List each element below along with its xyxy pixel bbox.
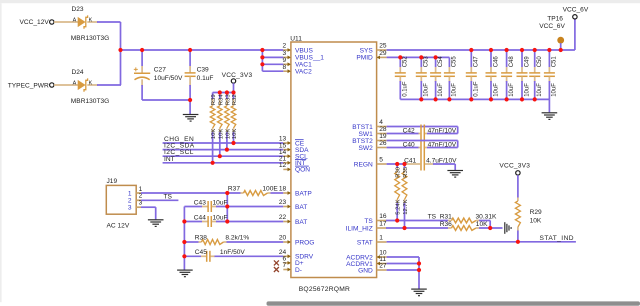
svg-text:VBUS: VBUS — [295, 47, 314, 54]
svg-text:PMID: PMID — [356, 55, 373, 62]
pin 23 BAT — [279, 199, 307, 211]
svg-text:STAT_IND: STAT_IND — [540, 235, 575, 242]
svg-text:R33: R33 — [225, 94, 231, 106]
svg-text:C53: C53 — [424, 56, 430, 68]
pin 20 PROG — [279, 235, 315, 247]
port VCC_12V — [19, 19, 54, 26]
resistor R34 10K pull-up — [218, 93, 225, 157]
pin 12 QON — [279, 162, 310, 174]
svg-text:10uF: 10uF — [552, 83, 558, 97]
wire C27 bottom to ground bus — [142, 99, 190, 101]
capacitor C55 10uF — [444, 56, 458, 100]
pin 7 D- — [283, 262, 302, 274]
node R31/R36 join — [488, 226, 492, 230]
svg-text:R39: R39 — [211, 94, 217, 105]
svg-text:C55: C55 — [452, 56, 458, 68]
node STAT R29 — [516, 240, 520, 244]
svg-text:PROG: PROG — [295, 239, 314, 246]
svg-text:10uF: 10uF — [438, 83, 444, 97]
pin 5 REGN — [354, 157, 387, 169]
svg-text:10K: 10K — [232, 129, 238, 140]
capacitor C50 10uF — [529, 50, 543, 99]
wire ACDRV vertical — [418, 257, 420, 289]
ground under cap bank — [542, 99, 558, 119]
svg-text:BATP: BATP — [295, 190, 312, 197]
connector J19 — [106, 178, 142, 230]
node R33 bottom — [225, 148, 229, 152]
op-amp U11 BQ25672RQMR body — [290, 35, 376, 293]
capacitor C39 — [185, 50, 214, 100]
svg-text:C43: C43 — [194, 199, 206, 206]
svg-text:25: 25 — [379, 43, 387, 50]
capacitor C42 47nF/10V — [387, 125, 458, 171]
node C39 top — [188, 48, 192, 52]
node R32 top — [231, 90, 235, 94]
svg-text:BAT: BAT — [295, 204, 307, 211]
capacitor C54 10uF — [430, 56, 444, 100]
svg-text:C47: C47 — [474, 56, 480, 68]
svg-text:C52: C52 — [403, 56, 409, 68]
svg-text:28: 28 — [379, 126, 387, 133]
svg-text:R31: R31 — [440, 213, 452, 220]
node TP16 stub — [559, 48, 563, 52]
svg-text:K: K — [89, 80, 93, 86]
resistor R36 10K — [386, 221, 503, 230]
svg-text:VCC_3V3: VCC_3V3 — [499, 163, 530, 170]
svg-text:R34: R34 — [218, 94, 224, 106]
resistor R35 12.7K — [402, 164, 409, 228]
pin 19 BTST2 — [352, 133, 387, 145]
svg-text:C40: C40 — [403, 141, 415, 148]
svg-text:D23: D23 — [72, 6, 84, 13]
capacitor C47 0.1uF — [466, 50, 480, 99]
svg-text:10uF: 10uF — [213, 214, 228, 221]
node ACDRV1 — [417, 261, 421, 265]
resistor R31 30.31K — [386, 213, 497, 228]
svg-text:VAC2: VAC2 — [295, 69, 312, 76]
svg-text:SW2: SW2 — [359, 145, 374, 152]
svg-text:19: 19 — [379, 133, 387, 140]
svg-text:10K: 10K — [476, 221, 488, 228]
svg-text:12.7K: 12.7K — [403, 199, 409, 214]
pin 8 VAC2 — [283, 64, 313, 76]
node REGN R35 — [402, 162, 406, 166]
svg-text:0.1uF: 0.1uF — [197, 75, 214, 82]
svg-text:SW1: SW1 — [359, 131, 374, 138]
resistor R37 100E — [141, 186, 283, 196]
svg-text:C54: C54 — [438, 56, 444, 68]
test point TP16 — [539, 15, 565, 50]
node C44 left — [182, 219, 186, 223]
svg-text:4.7uF/10V: 4.7uF/10V — [426, 158, 457, 165]
pin 26 SW2 — [359, 140, 387, 152]
wire ACDRV1 — [387, 263, 419, 265]
node SYS cap junctions — [469, 48, 473, 52]
svg-text:10uF: 10uF — [452, 83, 458, 97]
capacitor C53 10uF — [416, 56, 430, 100]
node ILIM R35 junction — [402, 226, 406, 230]
svg-text:17: 17 — [379, 221, 387, 228]
svg-text:23: 23 — [279, 199, 287, 206]
pin 14 SCL — [279, 149, 308, 161]
diode D23 — [54, 6, 109, 42]
svg-text:QON: QON — [295, 167, 310, 174]
node R32 bottom — [231, 141, 235, 145]
svg-text:AC 12V: AC 12V — [107, 222, 130, 229]
wire pull-up top bus — [213, 92, 234, 94]
capacitor C43 10uF — [184, 199, 283, 212]
svg-text:C46: C46 — [493, 56, 499, 68]
svg-text:22: 22 — [279, 214, 287, 221]
wire J19 pin3 to ground — [141, 207, 156, 219]
svg-text:C39: C39 — [197, 66, 209, 73]
svg-text:C48: C48 — [509, 56, 515, 68]
node R37 / BAT vertical — [225, 191, 229, 195]
pin 10 ACDRV2 — [346, 250, 387, 262]
node PMID cap junctions — [398, 55, 402, 59]
wire net STAT_IND — [387, 235, 576, 242]
capacitor C46 10uF — [486, 50, 500, 99]
wire ACDRV2 — [387, 256, 419, 258]
svg-text:10K: 10K — [225, 129, 231, 140]
pin 18 BATP — [279, 186, 312, 198]
svg-text:TP16: TP16 — [547, 15, 563, 22]
svg-text:30.31K: 30.31K — [476, 213, 498, 220]
ground under J19 — [148, 219, 164, 221]
power port VCC_3V3 right — [499, 163, 530, 175]
node BAT1 — [225, 204, 229, 208]
pin 17 ILIM_HIZ — [346, 221, 387, 233]
svg-text:C49: C49 — [524, 56, 530, 68]
svg-text:VCC_12V: VCC_12V — [19, 19, 49, 26]
node bottom bus junctions — [419, 97, 423, 101]
svg-text:SYS: SYS — [360, 47, 374, 54]
svg-text:16: 16 — [379, 213, 387, 220]
wire net I2C_SCL — [163, 149, 284, 156]
wire main VBUS bus — [121, 49, 284, 51]
svg-text:VCC_3V3: VCC_3V3 — [222, 72, 253, 79]
svg-text:R38: R38 — [195, 235, 207, 242]
no-connect D- — [274, 267, 279, 272]
svg-text:C50: C50 — [537, 56, 543, 68]
node TS R30 junction — [395, 218, 399, 222]
wire D23 cathode to junction — [97, 22, 121, 85]
svg-text:10K: 10K — [211, 129, 217, 140]
pin 25 SYS — [360, 43, 387, 55]
svg-text:29: 29 — [379, 50, 387, 57]
ground under C39 — [183, 100, 199, 121]
node C27 top — [140, 48, 144, 52]
svg-text:1nF/50V: 1nF/50V — [220, 249, 246, 256]
capacitor C40 47nF/10V — [387, 141, 458, 149]
svg-text:7: 7 — [283, 262, 287, 269]
pin 28 SW1 — [359, 126, 387, 138]
pin 1 STAT — [357, 235, 387, 247]
no-connect D+ — [274, 260, 279, 265]
pin 3 VBUS__1 — [283, 50, 325, 62]
svg-text:TYPEC_PWR: TYPEC_PWR — [8, 82, 49, 89]
svg-text:R30: R30 — [396, 166, 402, 178]
node branch VAC1 — [260, 62, 264, 66]
pin 22 BAT — [279, 214, 307, 226]
svg-text:5: 5 — [379, 157, 383, 164]
capacitor C48 10uF — [501, 50, 515, 99]
power port VCC_6V — [563, 6, 589, 19]
svg-text:18: 18 — [279, 186, 287, 193]
wire BATP-BAT vertical — [226, 193, 228, 222]
node R39 bottom — [211, 161, 215, 165]
svg-text:10uF: 10uF — [424, 83, 430, 97]
svg-text:K: K — [89, 17, 93, 23]
capacitor C41 4.7uF/10V — [387, 158, 458, 171]
left window edge — [0, 3, 2, 302]
wire VBUS branch vertical — [262, 50, 283, 71]
wire net INT — [163, 156, 284, 163]
svg-text:47nF/10V: 47nF/10V — [428, 128, 457, 135]
wire cap bank bottom bus — [400, 98, 549, 100]
pin 27 GND — [358, 263, 387, 275]
svg-text:C51: C51 — [552, 56, 558, 68]
svg-text:2: 2 — [283, 43, 287, 50]
wire net I2C_SDA — [163, 143, 284, 150]
capacitor C52 0.1uF — [395, 56, 409, 100]
pin 24 SDRV — [279, 249, 314, 261]
svg-text:INT: INT — [164, 156, 175, 163]
svg-text:0.1uF: 0.1uF — [474, 81, 480, 97]
svg-text:R36: R36 — [440, 221, 452, 228]
svg-text:27: 27 — [379, 263, 387, 270]
svg-text:MBR130T3G: MBR130T3G — [71, 98, 109, 105]
svg-text:5.24K: 5.24K — [396, 199, 402, 214]
wire J19 pin2 net TS — [141, 193, 178, 200]
svg-text:8.2k/1%: 8.2k/1% — [225, 235, 249, 242]
svg-text:GND: GND — [358, 267, 373, 274]
pin 29 PMID — [356, 50, 387, 62]
svg-text:TS: TS — [364, 218, 373, 225]
wire SYS bus — [387, 19, 575, 50]
pin 11 ACDRV1 — [346, 256, 386, 268]
ground sideways TS — [504, 222, 506, 234]
svg-text:12: 12 — [279, 162, 287, 169]
svg-text:D-: D- — [295, 267, 302, 274]
svg-text:10K: 10K — [530, 218, 542, 225]
capacitor C51 10uF — [544, 50, 558, 99]
pin 15 SDA — [279, 142, 309, 154]
svg-text:R37: R37 — [228, 186, 240, 193]
svg-text:D24: D24 — [72, 69, 84, 76]
resistor R32 10K pull-up — [231, 93, 238, 144]
svg-text:VCC_6V: VCC_6V — [539, 23, 565, 30]
resistor R30 5.24K — [395, 164, 402, 221]
svg-text:R29: R29 — [530, 209, 542, 216]
svg-text:2: 2 — [128, 197, 132, 204]
power port VCC_3V3 — [222, 72, 253, 93]
horizontal scrollbar — [267, 301, 640, 305]
node branch VBUS__1 — [260, 55, 264, 59]
svg-text:10uF/50V: 10uF/50V — [154, 75, 183, 82]
capacitor C27 — [134, 50, 183, 100]
svg-text:10uF: 10uF — [213, 199, 228, 206]
svg-text:A: A — [73, 80, 77, 86]
svg-text:R35: R35 — [403, 166, 409, 178]
wire PMID bus — [387, 56, 450, 58]
resistor R29 10K — [515, 175, 542, 242]
node branch VBUS — [260, 48, 264, 52]
svg-text:R32: R32 — [232, 94, 238, 105]
node R34 top — [218, 90, 222, 94]
svg-text:BAT: BAT — [295, 219, 307, 226]
svg-text:1: 1 — [379, 235, 383, 242]
wire net CHG_EN — [163, 136, 284, 143]
node R38 left — [182, 240, 186, 244]
ground under chip — [411, 288, 427, 290]
svg-text:TS: TS — [428, 213, 437, 220]
svg-text:ILIM_HIZ: ILIM_HIZ — [346, 225, 373, 232]
capacitor C45 1nF/50V — [184, 249, 283, 262]
svg-text:C27: C27 — [154, 66, 166, 73]
svg-text:100E: 100E — [262, 186, 278, 193]
resistor R38 8.2k/1% — [184, 235, 283, 245]
pin 9 VAC1 — [283, 57, 313, 69]
svg-text:20: 20 — [279, 235, 287, 242]
port TYPEC_PWR — [8, 82, 54, 89]
svg-text:C44: C44 — [194, 214, 206, 221]
svg-text:C45: C45 — [195, 249, 207, 256]
svg-text:BQ25672RQMR: BQ25672RQMR — [299, 286, 350, 293]
diode D24 — [54, 69, 109, 105]
svg-text:10uF: 10uF — [493, 83, 499, 97]
node R33 top — [225, 90, 229, 94]
top toolbar band — [0, 0, 640, 3]
resistor R39 10K pull-up — [210, 93, 217, 163]
pin 16 TS — [364, 213, 387, 225]
node REGN R30 — [395, 162, 399, 166]
node junction diodes — [118, 48, 122, 52]
svg-text:C42: C42 — [403, 128, 415, 135]
node GND — [417, 268, 421, 272]
svg-text:3: 3 — [128, 204, 132, 211]
node C45 left — [182, 254, 186, 258]
svg-text:10uF: 10uF — [509, 83, 515, 97]
wire D24 cathode to junction — [97, 84, 121, 86]
node R34 bottom — [218, 154, 222, 158]
ground under C45 — [177, 256, 193, 276]
svg-text:J19: J19 — [107, 178, 118, 185]
ground under C41 — [447, 170, 463, 172]
node BAT2 — [225, 219, 229, 223]
svg-text:BTST2: BTST2 — [352, 138, 373, 145]
wire GND pin — [387, 269, 419, 271]
svg-text:REGN: REGN — [354, 161, 373, 168]
svg-text:BTST1: BTST1 — [352, 124, 373, 131]
svg-text:10uF: 10uF — [537, 83, 543, 97]
pin 21 INT — [279, 156, 306, 168]
svg-text:10uF: 10uF — [524, 83, 530, 97]
capacitor C44 10uF — [184, 214, 283, 227]
svg-text:STAT: STAT — [357, 239, 373, 246]
svg-text:0.1uF: 0.1uF — [403, 81, 409, 97]
svg-text:26: 26 — [379, 140, 387, 147]
svg-text:47nF/10V: 47nF/10V — [428, 141, 457, 148]
capacitor C49 10uF — [517, 50, 531, 99]
svg-text:10K: 10K — [218, 129, 224, 140]
node C39 bottom / ground junction — [188, 98, 192, 102]
svg-text:TS: TS — [164, 193, 173, 200]
pin 13 CE — [279, 136, 305, 148]
wire left battery vertical — [183, 207, 185, 257]
svg-text:A: A — [73, 17, 77, 23]
pin 2 VBUS — [283, 43, 314, 55]
pin 6 D+ — [283, 256, 304, 268]
pin 4 BTST1 — [352, 119, 386, 131]
resistor R33 10K pull-up — [225, 93, 232, 150]
svg-text:VCC_6V: VCC_6V — [563, 6, 589, 13]
svg-text:MBR130T3G: MBR130T3G — [71, 35, 109, 42]
svg-text:4: 4 — [379, 119, 383, 126]
